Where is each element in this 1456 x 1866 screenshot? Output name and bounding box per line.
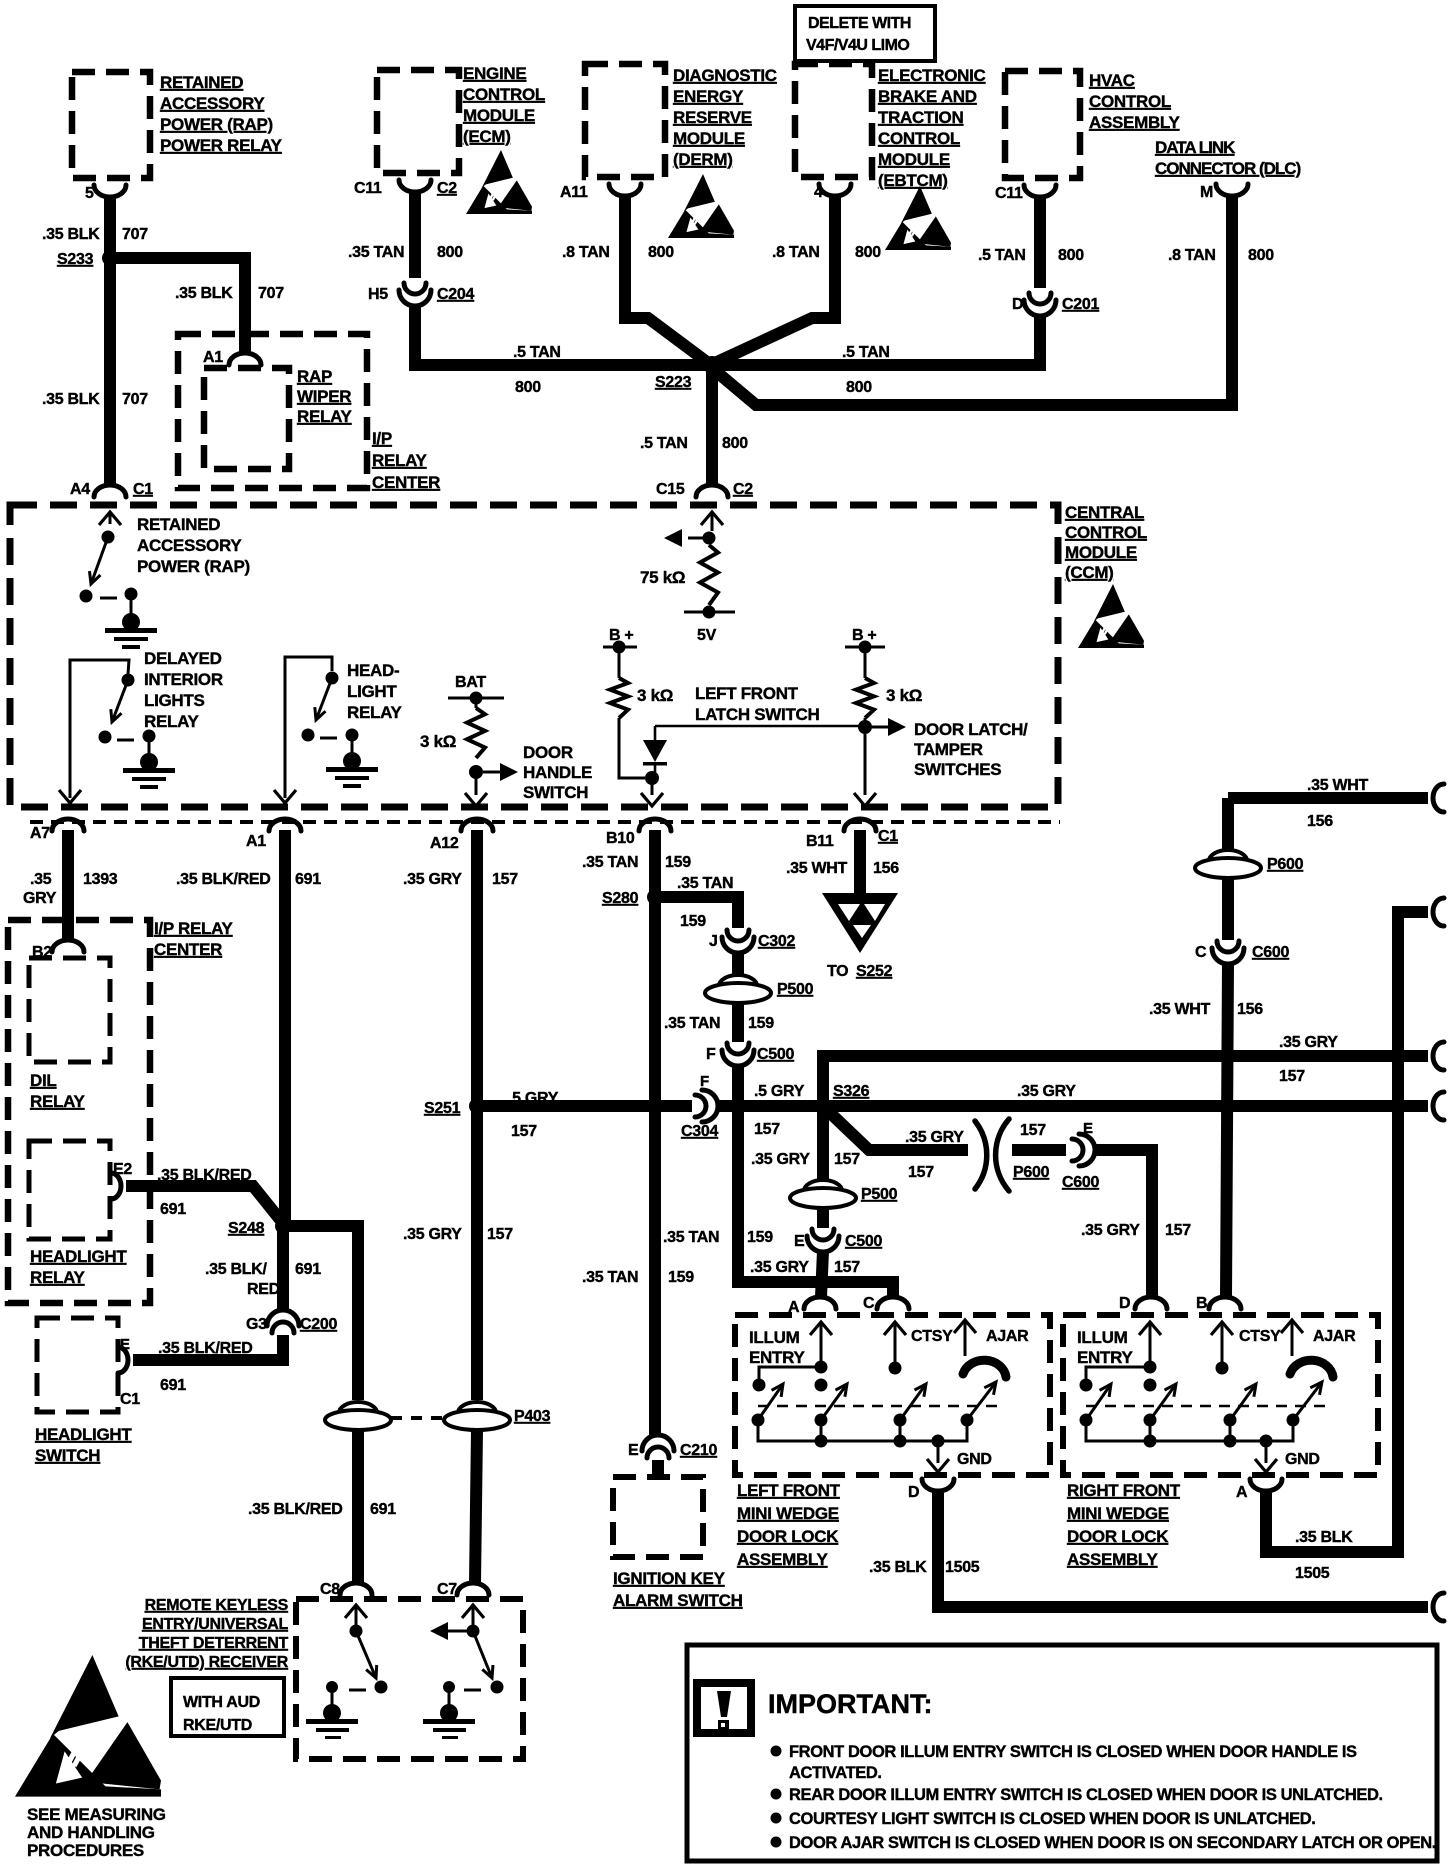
left contact dot right box	[1080, 1379, 1093, 1392]
wire 159 B10 down to S280	[649, 830, 661, 897]
tamper arrow	[888, 718, 906, 736]
diode junction	[645, 771, 659, 785]
wire 159 P500 to C500	[732, 1002, 744, 1042]
svg-text:707: 707	[122, 226, 148, 243]
ground headlight relay	[326, 752, 378, 788]
C7 plunger ground	[440, 1704, 458, 1722]
resistor 3k BAT	[467, 708, 485, 758]
RAP switch contact right	[125, 588, 138, 601]
5V rail contact	[703, 606, 716, 619]
grommet P500 lower	[790, 1180, 856, 1208]
connector C304	[695, 1090, 718, 1122]
arrow headlight relay to A1	[274, 790, 296, 803]
5V lead	[711, 512, 714, 531]
svg-text:C304: C304	[681, 1123, 718, 1140]
B+ left rail	[603, 646, 637, 649]
B+ right lead	[864, 647, 867, 678]
svg-text:CONTROL: CONTROL	[1065, 523, 1147, 542]
pin A12 of CCM	[461, 819, 493, 831]
RAP power relay box	[72, 72, 150, 178]
svg-text:MODULE: MODULE	[878, 150, 950, 169]
pin B2 of DIL relay	[52, 940, 84, 952]
wire 156 down to P600	[1222, 798, 1234, 850]
C7 switch lead	[472, 1605, 475, 1625]
svg-text:157: 157	[834, 1151, 860, 1168]
I/P relay center box	[178, 334, 367, 488]
B+ left contact	[613, 641, 626, 654]
svg-text:A1: A1	[203, 349, 223, 366]
svg-text:C600: C600	[1062, 1174, 1099, 1191]
svg-text:157: 157	[834, 1259, 860, 1276]
ground RAP switch	[105, 613, 157, 649]
svg-text:DIAGNOSTIC: DIAGNOSTIC	[673, 66, 777, 85]
wire 159 S280 down to C210	[649, 897, 661, 1435]
CTSY dot left	[889, 1362, 902, 1375]
svg-text:P600: P600	[1013, 1164, 1050, 1181]
wire 157 P600 to C600	[1012, 1144, 1066, 1156]
C8 plunger ground	[323, 1704, 341, 1722]
P403 link dashes	[391, 1416, 444, 1420]
pin C11 of HVAC	[1024, 185, 1056, 197]
connector C204	[399, 283, 431, 306]
svg-text:INTERIOR: INTERIOR	[144, 670, 223, 689]
headlight relay contact lower-left	[302, 729, 315, 742]
latch line	[655, 725, 865, 728]
wire 157 C500 to A pin	[821, 1251, 823, 1297]
arm2 to bus right	[1149, 1420, 1152, 1441]
RAP switch lead	[109, 512, 112, 524]
svg-text:ENGINE: ENGINE	[463, 64, 526, 83]
bus dot gnd left	[932, 1435, 945, 1448]
svg-text:F: F	[700, 1073, 709, 1090]
BAT rail	[448, 697, 504, 700]
svg-text:.35 BLK/: .35 BLK/	[205, 1261, 267, 1278]
svg-text:.5 GRY: .5 GRY	[754, 1083, 805, 1100]
svg-text:800: 800	[855, 244, 881, 261]
wire right trunk	[1266, 912, 1428, 1552]
delete with V4F/V4U note box	[795, 6, 935, 61]
switch arm 2 right box	[1150, 1384, 1176, 1420]
wire 156 C600 to B pin	[1226, 963, 1228, 1297]
svg-text:CTSY: CTSY	[911, 1328, 953, 1345]
svg-text:B11: B11	[806, 833, 834, 850]
svg-text:3 kΩ: 3 kΩ	[420, 732, 456, 751]
bullet 1	[771, 1746, 782, 1757]
bus left box	[758, 1420, 967, 1441]
wire 159 S280 branch right	[655, 897, 738, 928]
arrow into C7	[462, 1605, 484, 1618]
pin M of DLC	[1216, 184, 1248, 196]
svg-text:C1: C1	[120, 1391, 140, 1408]
bus dot arm3	[894, 1435, 907, 1448]
wire 691 S248 branch to C8	[283, 1226, 358, 1400]
arrow DIL to A7	[59, 790, 81, 803]
svg-text:1505: 1505	[945, 1559, 980, 1576]
wire 707 from RAP relay to S233	[104, 198, 116, 258]
svg-text:H5: H5	[368, 286, 388, 303]
svg-text:RELAY: RELAY	[347, 703, 403, 722]
svg-text:J: J	[709, 933, 718, 950]
A junction	[815, 1361, 828, 1374]
pin A lead	[820, 1322, 823, 1362]
svg-text:691: 691	[160, 1377, 186, 1394]
svg-text:C210: C210	[680, 1442, 717, 1459]
arrow into C8	[345, 1605, 367, 1618]
C7 switch dash	[464, 1689, 481, 1692]
svg-text:C500: C500	[757, 1046, 794, 1063]
svg-text:.5 TAN: .5 TAN	[842, 344, 890, 361]
5V left arrow lead	[688, 537, 709, 540]
svg-text:157: 157	[1279, 1068, 1305, 1085]
DIL relay box	[29, 958, 110, 1062]
switch arm 2 left box	[821, 1384, 847, 1420]
wire 157 S326 down to P500	[817, 1106, 829, 1180]
svg-text:E2: E2	[113, 1161, 132, 1178]
wire 157 S326 up then right	[823, 1056, 1428, 1106]
C8 plunger stem	[331, 1687, 334, 1708]
svg-text:D: D	[908, 1484, 919, 1501]
left latch lead	[619, 718, 645, 778]
wire 707 S233 down to CCM A4	[104, 258, 116, 486]
svg-text:DOOR AJAR SWITCH IS CLOSED WHE: DOOR AJAR SWITCH IS CLOSED WHEN DOOR IS …	[789, 1834, 1436, 1852]
D junction	[1144, 1361, 1157, 1374]
door handle arrow	[500, 763, 518, 781]
svg-text:MODULE: MODULE	[463, 106, 535, 125]
wire 800 ECM down	[409, 193, 421, 278]
wire 800 DERM down to S223	[625, 197, 707, 362]
DIL switch contact upper	[122, 674, 135, 687]
svg-text:A: A	[1236, 1484, 1248, 1501]
C8 switch contact	[375, 1681, 388, 1694]
svg-text:LATCH SWITCH: LATCH SWITCH	[695, 705, 820, 724]
bullet 3	[771, 1813, 782, 1824]
headlight relay ground lead	[351, 735, 354, 755]
svg-text:F: F	[706, 1046, 716, 1063]
svg-text:B: B	[1196, 1295, 1207, 1312]
svg-text:157: 157	[492, 871, 518, 888]
svg-text:A4: A4	[70, 481, 90, 498]
svg-text:ACCESSORY: ACCESSORY	[160, 94, 265, 113]
wire 800 EBTCM down to S223	[717, 197, 835, 362]
svg-text:FRONT DOOR ILLUM ENTRY SWITCH: FRONT DOOR ILLUM ENTRY SWITCH IS CLOSED …	[789, 1743, 1357, 1761]
pin B11 of CCM	[844, 819, 876, 831]
svg-text:ILLUM: ILLUM	[1077, 1328, 1128, 1347]
svg-text:RELAY: RELAY	[372, 451, 428, 470]
svg-text:MODULE: MODULE	[1065, 543, 1137, 562]
gnd arrow left	[927, 1459, 949, 1472]
svg-text:691: 691	[160, 1201, 186, 1218]
svg-text:WIPER: WIPER	[297, 387, 351, 406]
B+ right contact	[859, 641, 872, 654]
grommet P500 upper	[705, 975, 771, 1003]
off-page connector to S252	[822, 893, 898, 953]
arm4 pivot right	[1287, 1414, 1300, 1427]
svg-text:.35 TAN: .35 TAN	[348, 244, 404, 261]
arrow BAT to A12	[465, 793, 487, 806]
svg-text:707: 707	[258, 285, 284, 302]
RAP switch contact upper	[102, 531, 115, 544]
arm3 to bus right	[1229, 1420, 1232, 1441]
wire 159 C500 down to crossover	[738, 1065, 893, 1297]
wire 157 P403 to C7	[475, 1430, 477, 1583]
svg-text:(CCM): (CCM)	[1065, 563, 1114, 582]
C8 switch dash	[349, 1689, 366, 1692]
svg-text:LEFT FRONT: LEFT FRONT	[737, 1481, 841, 1500]
RAP switch dash	[100, 597, 117, 600]
svg-text:.35 GRY: .35 GRY	[750, 1259, 809, 1276]
wire 691 A1 down to S248	[279, 830, 291, 1226]
ECM box	[377, 70, 459, 173]
svg-text:MINI WEDGE: MINI WEDGE	[737, 1504, 839, 1523]
ignition key alarm switch box	[613, 1477, 703, 1557]
CTSY lead left	[894, 1322, 897, 1362]
svg-text:.5 TAN: .5 TAN	[978, 247, 1026, 264]
svg-text:800: 800	[515, 379, 541, 396]
splice S280	[647, 889, 663, 905]
connector C302	[722, 930, 754, 953]
svg-text:REAR DOOR ILLUM ENTRY SWITCH I: REAR DOOR ILLUM ENTRY SWITCH IS CLOSED W…	[789, 1786, 1383, 1804]
svg-text:.35 GRY: .35 GRY	[751, 1151, 810, 1168]
page pin right trunk	[1433, 898, 1444, 926]
svg-text:C: C	[1195, 944, 1207, 961]
svg-text:GND: GND	[957, 1451, 992, 1468]
svg-text:MODULE: MODULE	[673, 129, 745, 148]
svg-text:156: 156	[1307, 813, 1333, 830]
svg-text:RED: RED	[247, 1281, 280, 1298]
svg-text:157: 157	[1020, 1122, 1046, 1139]
bus dot arm2	[815, 1435, 828, 1448]
C7 switch contact	[491, 1681, 504, 1694]
svg-text:75 kΩ: 75 kΩ	[640, 568, 685, 587]
connector C600 C	[1212, 941, 1244, 964]
C7 left arrow lead	[448, 1630, 473, 1633]
svg-text:IGNITION KEY: IGNITION KEY	[613, 1569, 726, 1588]
pin A7 of CCM	[52, 819, 84, 831]
tamper junction	[858, 720, 872, 734]
EBTCM box	[795, 64, 872, 177]
HVAC box	[1005, 71, 1080, 178]
svg-text:TRACTION: TRACTION	[878, 108, 963, 127]
pin C11 of ECM	[399, 180, 431, 192]
AJAR arrow left box	[954, 1320, 976, 1333]
svg-text:E: E	[628, 1442, 639, 1459]
wire 691 C200 to headlight switch	[133, 1335, 283, 1360]
headlight relay box	[29, 1141, 110, 1239]
svg-text:C11: C11	[995, 185, 1023, 202]
svg-text:S248: S248	[228, 1220, 265, 1237]
AJAR arrow right box	[1281, 1320, 1303, 1333]
svg-text:707: 707	[122, 391, 148, 408]
svg-text:E: E	[1083, 1120, 1093, 1137]
headlight switch box	[37, 1318, 118, 1412]
RAP ground lead	[130, 594, 133, 615]
connector C201	[1024, 293, 1056, 316]
wire 156 B11 down	[854, 830, 866, 897]
DIL relay bracket	[70, 660, 129, 798]
svg-text:ENTRY: ENTRY	[749, 1348, 805, 1367]
ESD symbol CCM	[1078, 584, 1144, 648]
AJAR hook right	[1291, 1322, 1294, 1356]
RAP wiper relay box	[204, 368, 289, 469]
svg-text:A12: A12	[430, 835, 459, 852]
svg-text:S223: S223	[655, 374, 692, 391]
svg-text:HEAD-: HEAD-	[347, 661, 399, 680]
DIL switch arm	[111, 680, 128, 722]
svg-text:TO: TO	[827, 963, 848, 980]
headlight relay bracket	[285, 657, 332, 798]
svg-text:SWITCH: SWITCH	[35, 1446, 100, 1465]
svg-text:.8 TAN: .8 TAN	[562, 244, 610, 261]
headlight relay contact upper	[326, 672, 339, 685]
svg-text:C200: C200	[300, 1316, 337, 1333]
svg-text:.35 BLK/RED: .35 BLK/RED	[248, 1501, 343, 1518]
arrow pin A inside	[810, 1322, 832, 1335]
svg-text:HEADLIGHT: HEADLIGHT	[30, 1247, 127, 1266]
svg-text:A11: A11	[560, 184, 588, 201]
svg-text:LIGHT: LIGHT	[347, 682, 397, 701]
arm2 pivot	[815, 1414, 828, 1427]
svg-text:IMPORTANT:: IMPORTANT:	[768, 1689, 932, 1719]
page pin right 156	[1433, 784, 1444, 812]
page pin right 157 upper	[1433, 1042, 1444, 1070]
pin A1 of RAP wiper relay	[229, 353, 261, 365]
page pin right 1505	[1433, 1593, 1444, 1621]
C8 plunger top	[326, 1681, 338, 1693]
svg-text:C201: C201	[1062, 296, 1099, 313]
wire C210 into ignition switch	[652, 1460, 664, 1477]
pin D gnd left box	[922, 1479, 954, 1491]
svg-text:3 kΩ: 3 kΩ	[637, 686, 673, 705]
wire 159 C302 to P500	[732, 952, 744, 976]
resistor 75k	[700, 545, 718, 605]
C8 switch pivot	[350, 1625, 363, 1638]
D to left contact	[1086, 1367, 1150, 1380]
bus right box	[1086, 1420, 1293, 1441]
BAT wire down	[475, 772, 478, 795]
svg-text:.35 TAN: .35 TAN	[664, 1015, 720, 1032]
svg-text:ASSEMBLY: ASSEMBLY	[1067, 1550, 1158, 1569]
svg-text:HANDLE: HANDLE	[523, 763, 592, 782]
svg-text:P500: P500	[777, 981, 814, 998]
connector C210	[642, 1435, 674, 1458]
pin E of headlight switch	[118, 1347, 128, 1373]
svg-text:800: 800	[846, 379, 872, 396]
svg-text:.35 WHT: .35 WHT	[1307, 777, 1369, 794]
svg-text:S251: S251	[424, 1100, 461, 1117]
bus dot gnd right	[1260, 1435, 1273, 1448]
pin A11 of DERM	[609, 184, 641, 196]
svg-text:4: 4	[814, 184, 823, 201]
svg-text:V4F/V4U LIMO: V4F/V4U LIMO	[806, 37, 909, 54]
svg-text:.35 TAN: .35 TAN	[677, 875, 733, 892]
svg-text:C1: C1	[878, 828, 898, 845]
wire 800 DLC down to S223	[712, 197, 1232, 405]
wire 157 S326 to right edge	[823, 1100, 1428, 1112]
pin 5 of RAP power relay	[94, 185, 126, 197]
svg-text:159: 159	[668, 1269, 694, 1286]
gnd arrow right	[1255, 1459, 1277, 1472]
svg-text:S280: S280	[602, 890, 639, 907]
svg-text:.35 BLK: .35 BLK	[42, 391, 100, 408]
svg-text:(RKE/UTD) RECEIVER: (RKE/UTD) RECEIVER	[125, 1654, 288, 1671]
arm4 pivot	[961, 1414, 974, 1427]
wire 707 branch S233 to RAP wiper relay A1	[110, 258, 245, 355]
svg-text:C302: C302	[758, 933, 795, 950]
diode left front latch	[643, 740, 667, 762]
svg-text:DOOR LOCK: DOOR LOCK	[737, 1527, 839, 1546]
resistor 3k left	[610, 678, 628, 718]
CTSY arrow right box	[1211, 1322, 1233, 1335]
svg-text:CONNECTOR (DLC): CONNECTOR (DLC)	[1155, 159, 1301, 178]
CTSY dot right	[1216, 1362, 1229, 1375]
switch arm 1 left box	[758, 1384, 783, 1420]
bullet 2	[771, 1789, 782, 1800]
arm1 pivot right	[1080, 1414, 1093, 1427]
arm3 pivot right	[1224, 1414, 1237, 1427]
DIL switch contact lower-left	[99, 731, 112, 744]
svg-text:P600: P600	[1267, 856, 1304, 873]
pin D of right door lock	[1135, 1297, 1167, 1309]
ESD symbol EBTCM	[885, 186, 951, 250]
wire 800 C201 to S223	[712, 315, 1040, 365]
svg-text:.35 TAN: .35 TAN	[582, 1269, 638, 1286]
splice S248	[275, 1218, 291, 1234]
svg-text:POWER (RAP): POWER (RAP)	[137, 557, 250, 576]
svg-text:DOOR: DOOR	[523, 743, 573, 762]
svg-text:(DERM): (DERM)	[673, 150, 733, 169]
right box dashed line	[1086, 1405, 1326, 1408]
svg-text:156: 156	[873, 860, 899, 877]
svg-text:ELECTRONIC: ELECTRONIC	[878, 66, 986, 85]
svg-text:C15: C15	[656, 481, 685, 498]
arm3 to bus	[899, 1420, 902, 1441]
splice S326	[815, 1098, 831, 1114]
grommet P403 right	[444, 1402, 510, 1430]
svg-text:.35 GRY: .35 GRY	[1081, 1222, 1140, 1239]
wire 157 P500 to C500 E	[817, 1207, 829, 1228]
pin C of left door lock	[877, 1297, 909, 1309]
svg-text:CENTER: CENTER	[154, 940, 222, 959]
svg-text:S233: S233	[57, 251, 94, 268]
svg-text:.35 GRY: .35 GRY	[905, 1129, 964, 1146]
left contact dot	[753, 1379, 766, 1392]
grommet P403 left	[325, 1402, 391, 1430]
svg-text:RIGHT FRONT: RIGHT FRONT	[1067, 1481, 1181, 1500]
svg-text:C: C	[863, 1295, 875, 1312]
pin C8 of RKE	[340, 1583, 372, 1595]
svg-text:159: 159	[748, 1015, 774, 1032]
resistor 3k right	[856, 678, 874, 718]
svg-text:C11: C11	[354, 180, 382, 197]
arm1 pivot	[752, 1414, 765, 1427]
headlight relay arm	[315, 678, 332, 720]
arm3 pivot	[894, 1414, 907, 1427]
svg-text:MINI WEDGE: MINI WEDGE	[1067, 1504, 1169, 1523]
svg-text:AJAR: AJAR	[986, 1328, 1029, 1345]
svg-text:D: D	[1012, 296, 1023, 313]
svg-text:156: 156	[1237, 1001, 1263, 1018]
svg-text:ENTRY/UNIVERSAL: ENTRY/UNIVERSAL	[142, 1616, 289, 1633]
svg-text:RAP: RAP	[297, 367, 332, 386]
svg-text:5: 5	[85, 185, 94, 202]
svg-text:3 kΩ: 3 kΩ	[886, 686, 922, 705]
svg-text:DELETE WITH: DELETE WITH	[808, 15, 911, 32]
svg-text:E: E	[120, 1336, 130, 1353]
svg-text:800: 800	[722, 435, 748, 452]
svg-text:CONTROL: CONTROL	[463, 85, 545, 104]
door handle arrow lead	[483, 771, 500, 774]
D lower contact	[1144, 1379, 1157, 1392]
